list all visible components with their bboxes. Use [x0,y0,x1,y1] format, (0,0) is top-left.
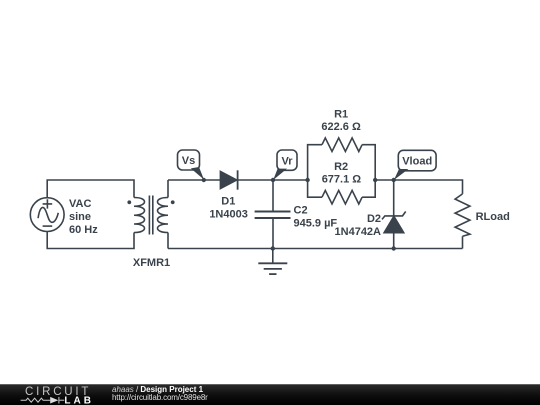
label D2 1N4742A [335,213,382,238]
transformer XFMR1 primary coil [134,197,145,232]
svg-text:1N4003: 1N4003 [209,209,248,221]
wire: zener D2 to bottom rail [393,233,395,249]
node dot Vload [392,178,396,182]
net label Vs [178,150,205,180]
wire: R2 to parallel-right branch [362,180,375,197]
wire: secondary top stub [167,180,169,198]
capacitor C2 [255,212,291,219]
transformer XFMR1 secondary coil [158,197,169,232]
diode D1 [220,170,237,189]
node dot Vs [202,178,206,182]
svg-text:sine: sine [69,211,91,223]
net label Vr [273,150,297,180]
label D1 1N4003 [209,196,248,221]
svg-text:D2: D2 [367,213,381,225]
svg-text:Vs: Vs [182,155,195,167]
transformer XFMR1 core [149,196,152,235]
net label Vload [394,150,436,180]
wire: primary loop top (source top to transformer primary) [47,180,134,198]
svg-text:60 Hz: 60 Hz [69,224,98,236]
wire: R1 to parallel-right branch [362,145,375,180]
transformer phasing dot (primary) [127,200,131,204]
wire: secondary bottom stub [167,233,169,249]
svg-text:C2: C2 [294,205,308,217]
node dot Vr [271,178,275,182]
svg-text:Vr: Vr [281,155,293,167]
voltage source V1 (VAC sine 60 Hz) [30,198,64,232]
wire: node Vload to RLoad top [394,180,463,194]
credit text [112,386,208,402]
wire: diode D1 cathode to node Vr [238,179,308,181]
svg-text:VAC: VAC [69,198,91,210]
ground [258,249,287,275]
resistor R1 [322,138,362,152]
svg-text:D1: D1 [221,196,235,208]
resistor R2 [322,190,362,204]
svg-text:622.6 Ω: 622.6 Ω [321,121,361,133]
node dot: parallel-right [373,178,377,182]
label R1 622.6 ohm [321,108,361,133]
node dot: ground junction [271,246,275,250]
svg-text:677.1 Ω: 677.1 Ω [322,174,362,186]
svg-text:R1: R1 [334,108,348,120]
footer bar [0,384,540,405]
svg-text:LAB: LAB [64,395,92,405]
svg-text:945.9 µF: 945.9 µF [294,218,338,230]
wire: node Vr down to capacitor C2 [272,180,274,211]
wire: capacitor C2 to bottom rail [272,219,274,249]
wire: RLoad bottom to rail [462,236,464,248]
svg-text:XFMR1: XFMR1 [133,257,170,269]
CircuitLab logo [0,384,100,405]
wire: parallel-left branch down [308,180,322,197]
wire: parallel-left branch up [308,145,322,180]
zener diode D2 [382,212,406,233]
svg-text:RLoad: RLoad [476,211,510,223]
resistor RLoad [455,194,470,236]
node dot: zener bottom [392,246,396,250]
value label: VAC sine 60 Hz [69,198,98,236]
wire: bottom rail [168,248,463,250]
svg-text:R2: R2 [334,161,348,173]
label RLoad [476,211,510,223]
wire: parallel-right to node Vload [375,179,394,181]
svg-text:Vload: Vload [402,156,432,168]
wire: node Vload down to zener D2 [393,180,395,216]
svg-text:1N4742A: 1N4742A [335,226,382,238]
wire: secondary top to diode D1 anode [168,179,220,181]
transformer phasing dot (secondary) [171,200,175,204]
label XFMR1 [133,257,170,269]
wire: primary loop bottom (source bottom to transformer primary) [47,231,134,248]
label R2 677.1 ohm [322,161,362,186]
label C2 945.9 uF [294,205,338,230]
node dot: parallel-left [305,178,309,182]
